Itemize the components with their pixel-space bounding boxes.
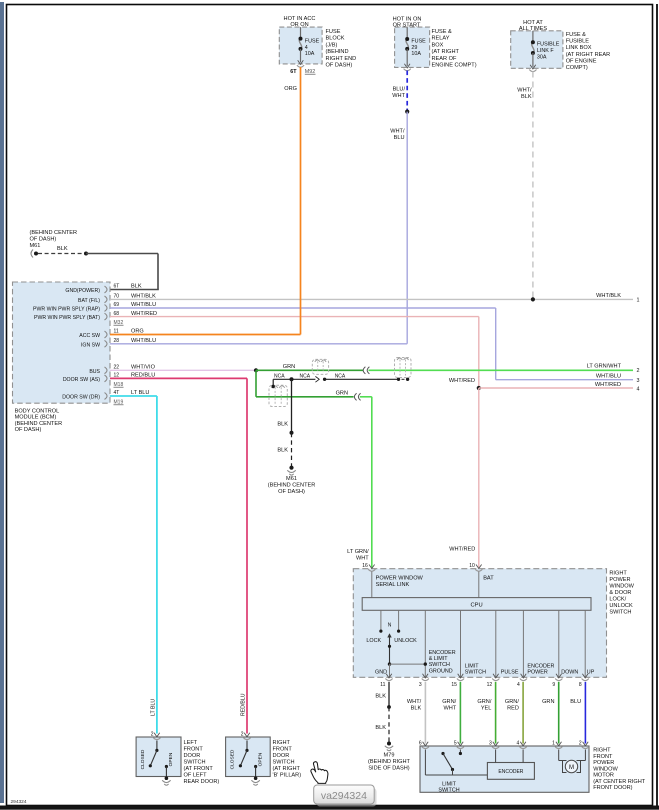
node junction BLK sw [387,705,391,709]
svg-text:M61: M61 [30,243,41,249]
harness connector on GRN (left) [312,359,328,374]
svg-text:WHT/VIO: WHT/VIO [131,365,156,371]
ground M61 center symbol [289,466,293,470]
svg-text:LT GRN/: LT GRN/ [347,549,369,555]
svg-text:BLK: BLK [375,694,386,700]
pin 4 of switch (bottom) [521,674,527,678]
svg-text:WINDOW: WINDOW [609,583,634,589]
svg-text:FRONT: FRONT [593,754,613,760]
svg-text:ORG: ORG [284,86,297,92]
BCM pin 69 (PWR WIN PWR SPLY (RAP)) [105,305,108,312]
BCM pin 70 (BAT (F/L)) [105,296,108,303]
svg-text:BOX: BOX [432,42,444,48]
fuse F29 10A symbol [406,39,408,49]
svg-text:BLK: BLK [277,422,288,428]
wire WHT/BLU RAP [110,307,496,309]
svg-text:WHT/: WHT/ [390,129,405,135]
svg-text:va294324: va294324 [321,790,367,802]
svg-text:(AT RIGHT REAR: (AT RIGHT REAR [566,52,610,58]
left door switch common stem [156,741,158,751]
svg-text:M79: M79 [384,752,395,758]
svg-text:PWR WIN PWR SPLY (BAT): PWR WIN PWR SPLY (BAT) [34,315,100,321]
pin of fuse block 3 [530,65,536,69]
svg-text:DOWN: DOWN [561,669,578,675]
svg-text:OF DASH): OF DASH) [326,63,353,69]
svg-text:12: 12 [487,682,493,688]
svg-text:POWER: POWER [609,577,630,583]
svg-text:LT GRN/WHT: LT GRN/WHT [587,364,622,370]
wire LT GRN/WHT to right edge [369,369,634,371]
svg-text:LOCK/: LOCK/ [609,597,626,603]
svg-text:(AT RIGHT: (AT RIGHT [273,766,301,772]
wire WHT/BLK switch to motor [424,682,426,744]
wire fuse1 output [300,49,302,63]
wire serial link to CPU [371,572,373,598]
limit switch contact A [441,752,444,755]
wire WHT/VIO from BUS [110,369,256,371]
svg-text:SWITCH: SWITCH [465,669,486,675]
page right second border line [656,4,658,806]
svg-text:OF DASH): OF DASH) [278,489,305,495]
svg-text:2: 2 [637,368,640,374]
wire GRN branch down [255,370,257,397]
mouse hand cursor [311,762,328,784]
svg-text:HOT IN ON: HOT IN ON [393,16,422,22]
pin of fuse block 2 [404,64,410,68]
wire fuse3 output [532,53,534,67]
svg-text:OPEN: OPEN [257,752,263,766]
svg-text:1: 1 [552,740,555,746]
svg-text:SWITCH: SWITCH [273,760,295,766]
wire ORG from fuse1 to BCM ACC SW [300,67,302,335]
wire CPU to encoder-limit-ground pin [424,610,426,677]
wire CPU to LOCK contact [380,610,382,631]
wire BLK dashed to M79 [388,707,390,744]
svg-text:FUSE &: FUSE & [432,29,452,35]
svg-text:FRONT: FRONT [273,747,293,753]
svg-text:RED/BLU: RED/BLU [241,693,247,716]
svg-text:LINK F: LINK F [537,48,554,54]
BCM pin 11 (ACC SW) [105,331,108,338]
power window motor box [420,746,589,792]
svg-text:BLU: BLU [394,135,405,141]
svg-text:294324: 294324 [11,799,27,805]
node junction GND arm [388,662,391,665]
svg-text:6T: 6T [290,69,297,75]
svg-text:3: 3 [637,378,640,384]
svg-text:RELAY: RELAY [432,36,450,42]
svg-text:4: 4 [305,45,308,51]
svg-text:LINK BOX: LINK BOX [566,45,592,51]
svg-text:N: N [388,623,392,629]
fusible link F 30A symbol [532,42,534,53]
page left window bar [0,2,4,803]
svg-text:GRN/: GRN/ [477,699,491,705]
svg-text:FUSIBLE: FUSIBLE [566,39,590,45]
ground at left door switch [165,776,169,780]
svg-text:WHT/BLU: WHT/BLU [131,338,156,344]
svg-text:FUSE: FUSE [326,29,341,35]
svg-text:GRN: GRN [283,364,295,370]
right front door switch box [226,737,271,777]
node splice BLU/WHT to WHT/BLU [405,110,409,114]
pin 16 of switch [369,565,375,569]
svg-text:BLU: BLU [570,699,581,705]
pin 8 of switch (bottom) [582,674,588,678]
left door switch OPEN contact [165,765,168,768]
svg-text:(AT FRONT: (AT FRONT [184,766,214,772]
tooltip va294324 [314,785,377,807]
svg-text:BLK: BLK [375,725,386,731]
wire CPU to UNLOCK contact [398,610,400,631]
pin 3 of motor [493,742,499,746]
fuse block 1 box (J/B) [279,27,322,64]
pin 10 of switch [476,565,482,569]
svg-text:LIMIT: LIMIT [465,663,479,669]
svg-text:3: 3 [419,682,422,688]
svg-text:BLK: BLK [57,246,68,252]
svg-text:WHT: WHT [356,556,369,562]
svg-text:BUS: BUS [89,369,100,375]
svg-text:GRN/: GRN/ [442,699,456,705]
BCM pin 12 (DOOR SW (AS)) [105,375,108,382]
svg-text:4: 4 [517,740,520,746]
wire CPU to LIMIT SWITCH pin [460,610,462,677]
svg-text:IGN SW: IGN SW [81,342,100,348]
svg-text:30A: 30A [537,54,547,60]
wire BLK dashed to ground [291,433,293,468]
svg-text:LOCK: LOCK [366,638,381,644]
wire NCA continues [325,378,399,380]
wire CPU to PULSE pin [495,610,497,677]
svg-text:NCA: NCA [274,374,285,380]
wire arm junction to encoder-ground line [390,663,426,665]
inline connector on NCA wire [315,376,319,382]
wire GRN/YEL switch to motor [495,682,497,744]
encoder box [487,763,534,780]
wire BLK from BCM GND(POWER) [86,253,158,255]
svg-text:(AT RIGHT: (AT RIGHT [432,49,460,55]
BCM pin 4T (DOOR SW (DR)) [105,393,108,400]
svg-text:BLK: BLK [131,284,142,290]
pin 5 of motor [458,742,464,746]
svg-text:OF DASH): OF DASH) [15,427,42,433]
svg-text:6T: 6T [114,284,120,290]
svg-text:LEFT: LEFT [184,740,198,746]
svg-text:M61: M61 [286,476,297,482]
svg-text:WHT/RED: WHT/RED [595,382,621,388]
BCM pin 6T (GND(POWER)) [105,286,108,293]
svg-text:(AT CENTER RIGHT: (AT CENTER RIGHT [593,779,646,785]
svg-text:(BEHIND RIGHT: (BEHIND RIGHT [368,759,411,765]
wire BLU switch to motor [584,682,586,744]
svg-text:DOOR SW (AS): DOOR SW (AS) [63,377,100,383]
node junction BLK [290,431,294,435]
lock/unlock switch arm [389,635,391,665]
svg-text:BLOCK: BLOCK [326,36,345,42]
svg-text:WHT/BLK: WHT/BLK [596,293,621,299]
wire LT BLU from DOOR SW (DR) [110,395,157,397]
node junction WHT/VIO-GRN [254,368,258,372]
node junction WHT/BLK with fuse3 drop [531,297,535,301]
svg-text:28: 28 [114,338,120,344]
harness connector on GRN (right) [395,358,412,378]
svg-text:(BEHIND CENTER: (BEHIND CENTER [15,421,63,427]
pin 6T of fuse block 1 [298,60,304,64]
window/lock switch box [353,569,606,678]
svg-text:REAR OF: REAR OF [432,56,457,62]
svg-text:(BEHIND: (BEHIND [326,49,349,55]
motor M symbol [563,761,567,773]
BCM pin 28 (IGN SW) [105,340,108,347]
svg-text:(BEHIND CENTER: (BEHIND CENTER [30,230,78,236]
pin 12 of switch (bottom) [493,674,499,678]
left front door switch box [136,737,181,777]
ground M79 symbol [387,742,391,746]
svg-text:RIGHT END: RIGHT END [326,56,357,62]
left door switch arm [155,749,158,752]
svg-text:(BEHIND CENTER: (BEHIND CENTER [268,483,316,489]
svg-text:SWITCH: SWITCH [184,760,206,766]
wire BAT to CPU [478,572,480,598]
svg-text:2: 2 [579,740,582,746]
svg-text:ENGINE COMPT): ENGINE COMPT) [432,63,477,69]
ground at right door switch [254,776,258,780]
svg-text:'B' PILLAR): 'B' PILLAR) [273,773,302,779]
node junction WHT/RED [477,386,481,390]
wire fuse3 feed [532,31,534,42]
pin 2 of left door switch [154,733,160,737]
svg-text:CLOSED: CLOSED [140,749,146,769]
svg-text:WINDOW: WINDOW [593,766,618,772]
svg-text:GRN: GRN [542,699,554,705]
wire WHT/BLU to BCM IGN SW [110,343,407,345]
svg-text:ACC SW: ACC SW [79,333,100,339]
svg-text:SERIAL LINK: SERIAL LINK [376,582,410,588]
fuse block 3 box [511,31,563,69]
right door switch OPEN contact [254,765,257,768]
wire CPU to UP pin [584,610,586,677]
svg-text:2: 2 [151,732,154,738]
wire NCA horizontal [273,378,315,380]
svg-text:DOOR: DOOR [184,753,201,759]
svg-text:LIMIT: LIMIT [442,781,456,787]
wire LT GRN to switch pin 16 [360,396,372,398]
wire pin1 to motor M [558,750,560,761]
wire fuse2 feed [406,27,408,39]
svg-text:FUSE: FUSE [305,39,320,45]
svg-text:NCA: NCA [335,374,346,380]
svg-text:ENCODER: ENCODER [498,769,523,775]
svg-text:& DOOR: & DOOR [609,590,631,596]
CPU box [362,598,591,611]
svg-text:BLK: BLK [521,94,532,100]
wire WHT/RED BAT [110,316,479,318]
wire GRN/RED switch to motor [522,682,524,744]
wire GRN/WHT switch to motor [459,682,461,744]
svg-text:WHT/: WHT/ [407,699,422,705]
wire CPU to DOWN pin [558,610,560,677]
svg-text:MODULE (BCM): MODULE (BCM) [15,415,57,421]
svg-text:ENCODER: ENCODER [429,650,456,656]
svg-text:BLK: BLK [277,448,288,454]
svg-text:OF DASH): OF DASH) [30,236,57,242]
svg-text:SIDE OF DASH): SIDE OF DASH) [368,765,409,771]
svg-text:16: 16 [362,563,368,569]
svg-text:BLU/: BLU/ [393,87,406,93]
svg-text:FUSE: FUSE [411,39,426,45]
svg-text:CLOSED: CLOSED [230,749,236,769]
harness connector NCA stub [269,385,287,406]
pin 6 of motor [423,742,429,746]
right door switch arm [245,749,248,752]
svg-text:10A: 10A [305,51,315,57]
node junction on BLK gnd wire [84,252,88,256]
ground M61 top-left symbol [34,252,38,256]
svg-text:OF ENGINE: OF ENGINE [566,58,597,64]
svg-text:RIGHT: RIGHT [593,748,611,754]
svg-text:10A: 10A [411,51,421,57]
pin 9 of switch (bottom) [556,674,562,678]
svg-text:PULSE: PULSE [501,669,519,675]
splice on GRN upper [363,367,365,374]
pin 1 of motor [556,742,562,746]
wire WHT/BLU from fuse 2 down [406,112,408,344]
wire fuse1 feed [300,27,302,38]
BCM pin 22 (BUS) [105,367,108,374]
svg-text:HOT IN ACC: HOT IN ACC [284,16,316,22]
svg-text:2: 2 [241,732,244,738]
node junction NCA-BLK [290,377,294,381]
wire WHT/BLK dashed from fuse 3 [532,72,534,300]
svg-text:3: 3 [489,740,492,746]
svg-text:UNLOCK: UNLOCK [609,603,633,609]
svg-text:CPU: CPU [470,603,482,609]
pin 15 of switch (bottom) [458,674,464,678]
svg-text:8: 8 [579,682,582,688]
svg-text:ENCODER: ENCODER [527,663,554,669]
wire WHT/RED to right edge [479,387,633,389]
svg-text:BAT (F/L): BAT (F/L) [78,298,100,304]
svg-text:FUSIBLE: FUSIBLE [537,41,560,47]
svg-text:WHT: WHT [443,706,456,712]
fuse block 2 box [395,27,430,67]
pin 3 of switch (bottom) [423,674,429,678]
wire fuse2 output [406,49,408,66]
wire BLK from GND pin [388,682,390,707]
svg-text:UNLOCK: UNLOCK [394,638,417,644]
wire GRN upper run [256,369,364,371]
svg-text:RIGHT: RIGHT [273,740,291,746]
pin 4 of motor [520,742,526,746]
svg-text:POWER: POWER [593,760,614,766]
svg-text:POWER: POWER [527,669,547,675]
svg-text:22: 22 [114,365,120,371]
svg-text:WHT/BLU: WHT/BLU [596,374,621,380]
wire pin4 to encoder [522,750,524,763]
svg-text:GND: GND [375,669,387,675]
limit switch arm [443,754,453,770]
svg-text:GRN: GRN [336,390,348,396]
pin 2 of right door switch [244,733,250,737]
svg-text:1: 1 [637,298,640,304]
svg-text:GROUND: GROUND [429,668,453,674]
svg-text:OF LEFT: OF LEFT [184,773,208,779]
svg-text:DOOR SW (DR): DOOR SW (DR) [62,395,100,401]
svg-text:10: 10 [469,563,475,569]
pin 11 of switch (bottom) [386,674,392,678]
fuse F4 10A symbol [299,39,301,49]
svg-text:FRONT DOOR): FRONT DOOR) [593,785,632,791]
svg-text:YEL: YEL [481,706,492,712]
svg-text:11: 11 [380,682,385,688]
svg-text:BLK: BLK [411,706,422,712]
svg-text:SWITCH: SWITCH [438,787,459,793]
svg-text:(J/B): (J/B) [326,42,338,48]
motor internal wire pin6 [424,750,426,776]
svg-text:6: 6 [419,740,422,746]
svg-text:FUSE &: FUSE & [566,32,586,38]
wire WHT/BLK BAT(F/L) to right edge [110,298,633,300]
splice on GRN lower [354,393,356,400]
svg-text:NCA: NCA [300,374,311,380]
svg-text:29: 29 [411,45,417,51]
svg-text:COMPT): COMPT) [566,65,588,71]
svg-text:LT BLU: LT BLU [151,699,157,716]
svg-text:SWITCH: SWITCH [429,662,450,668]
svg-text:PWR WIN PWR SPLY (RAP): PWR WIN PWR SPLY (RAP) [33,307,100,313]
wire WHT/RED down to switch [478,388,480,569]
svg-text:GND(POWER): GND(POWER) [65,288,100,294]
wire RED/BLU from DOOR SW (AS) [110,377,247,379]
wire GND drop [389,664,391,677]
svg-text:15: 15 [451,682,457,688]
svg-text:4: 4 [637,386,640,392]
limit switch contact B from pin 5 [459,750,461,754]
svg-text:WHT/RED: WHT/RED [449,547,475,553]
svg-text:SWITCH: SWITCH [609,610,631,616]
svg-text:BAT: BAT [483,576,494,582]
svg-text:RED: RED [507,706,519,712]
svg-text:9: 9 [552,682,555,688]
pin 2 of motor [583,742,589,746]
svg-text:REAR DOOR): REAR DOOR) [184,779,220,785]
wire BLK down from NCA junction [291,379,293,433]
svg-text:RIGHT: RIGHT [609,570,627,576]
wire pin2 to motor M [584,750,586,761]
BCM pin 68 (PWR WIN PWR SPLY (BAT)) [105,313,108,320]
svg-text:WHT: WHT [392,93,405,99]
wire CPU to ENCODER POWER pin [522,610,524,677]
svg-text:MOTOR: MOTOR [593,773,614,779]
svg-text:BODY CONTROL: BODY CONTROL [15,409,60,415]
svg-text:OPEN: OPEN [168,752,174,766]
body control module BCM box [13,282,111,403]
svg-text:POWER WINDOW: POWER WINDOW [376,576,424,582]
wire GRN switch to motor [558,682,560,744]
wire NCA stub [272,379,274,386]
page bottom bar [0,806,659,810]
wire BLK dashed to ground M61 [38,253,86,255]
right door switch common stem [246,741,248,751]
svg-text:DOOR: DOOR [273,753,290,759]
svg-text:WHT/: WHT/ [517,88,532,94]
wire BLU/WHT dashed from fuse 2 [406,71,408,112]
svg-text:WHT/RED: WHT/RED [449,378,475,384]
svg-text:& LIMIT: & LIMIT [429,656,449,662]
wire pin3 to encoder [495,750,497,763]
svg-text:FRONT: FRONT [184,747,204,753]
